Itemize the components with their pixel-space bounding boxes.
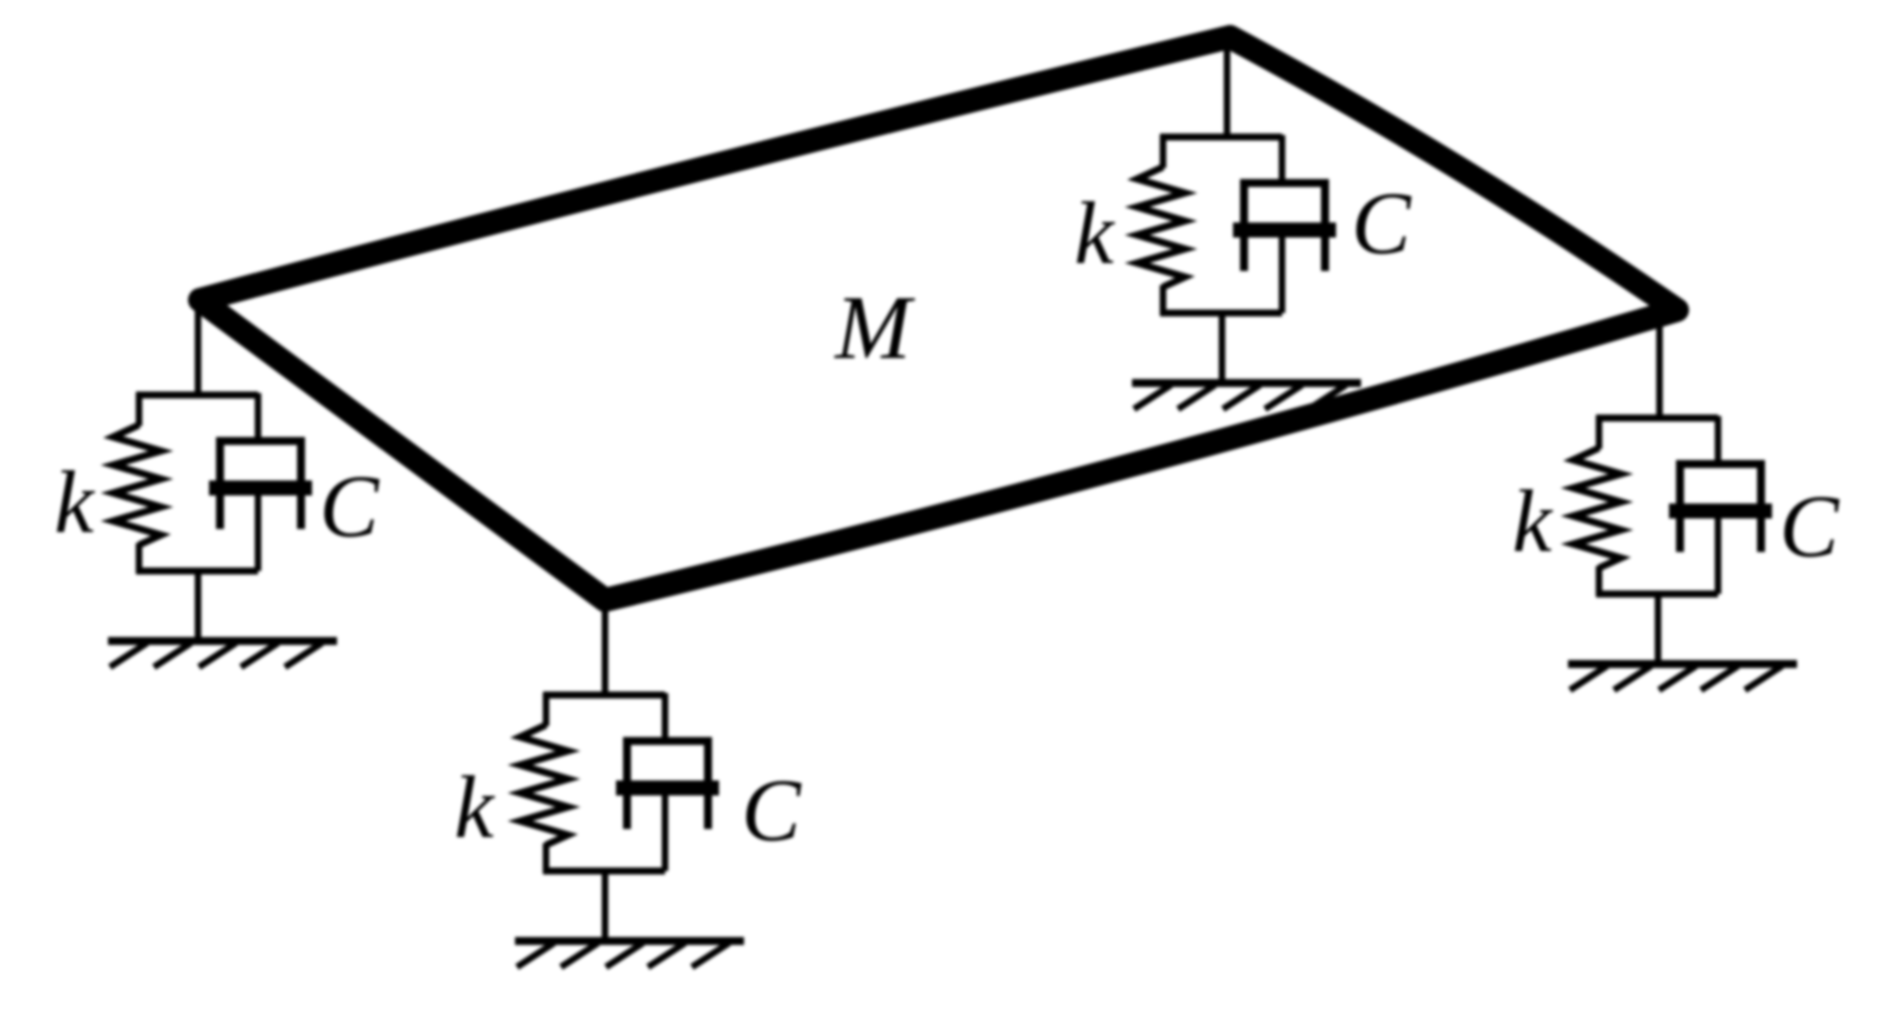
rod from top corner to unit 4 (rear)	[1224, 40, 1231, 140]
unit 3 : right spring-damper	[1568, 416, 1797, 690]
rod from left corner to unit 1	[195, 302, 202, 398]
svg-text:k: k	[54, 454, 95, 552]
unit 4 : rear spring-damper	[1132, 135, 1361, 409]
svg-text:C: C	[319, 458, 380, 556]
svg-text:C: C	[1351, 175, 1412, 273]
svg-text:k: k	[454, 759, 495, 857]
svg-text:k: k	[1512, 473, 1553, 571]
svg-text:C: C	[741, 762, 802, 860]
svg-text:M: M	[833, 277, 915, 378]
rod from right corner to unit 3	[1656, 315, 1663, 421]
mass plate M (thick parallelogram, slightly bowed edges)	[200, 37, 1677, 600]
svg-text:k: k	[1074, 185, 1115, 283]
unit 2 : bottom spring-damper	[515, 693, 744, 967]
unit 1 : left spring-damper	[108, 393, 337, 667]
rod from bottom corner to unit 2	[602, 598, 609, 698]
svg-text:C: C	[1779, 478, 1840, 576]
